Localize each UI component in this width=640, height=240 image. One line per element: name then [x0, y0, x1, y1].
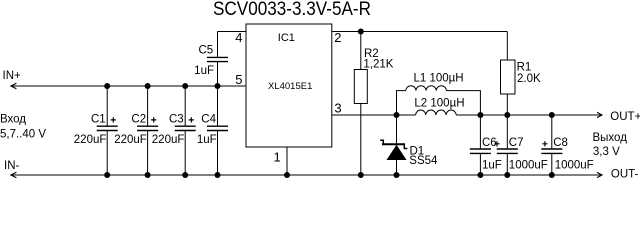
svg-text:SS54: SS54: [409, 155, 438, 167]
svg-text:Выход: Выход: [593, 132, 628, 144]
svg-text:R1: R1: [517, 62, 532, 74]
svg-text:XL4015E1: XL4015E1: [268, 81, 312, 92]
svg-text:C7: C7: [509, 137, 524, 149]
svg-text:C1: C1: [91, 113, 106, 125]
svg-text:1000uF: 1000uF: [509, 159, 548, 171]
svg-text:2: 2: [334, 30, 341, 45]
svg-text:5: 5: [235, 72, 242, 87]
svg-text:220uF: 220uF: [114, 134, 147, 146]
svg-text:L1 100µH: L1 100µH: [414, 72, 464, 84]
svg-text:L2 100µH: L2 100µH: [414, 98, 464, 110]
svg-text:IN+: IN+: [3, 70, 22, 82]
svg-text:1uF: 1uF: [194, 65, 214, 77]
svg-text:IC1: IC1: [278, 32, 295, 44]
svg-text:C5: C5: [198, 45, 213, 57]
svg-text:1: 1: [274, 149, 281, 164]
svg-text:C8: C8: [553, 137, 568, 149]
svg-text:OUT+: OUT+: [610, 111, 640, 123]
svg-text:5,7..40 V: 5,7..40 V: [0, 128, 46, 140]
svg-text:C6: C6: [482, 137, 497, 149]
svg-text:1uF: 1uF: [482, 159, 502, 171]
svg-text:C4: C4: [201, 113, 216, 125]
svg-text:OUT-: OUT-: [611, 169, 639, 179]
svg-text:Вход: Вход: [0, 113, 26, 125]
svg-text:1000uF: 1000uF: [555, 159, 594, 171]
svg-text:1uF: 1uF: [197, 134, 217, 146]
svg-text:4: 4: [235, 30, 242, 45]
svg-text:C2: C2: [131, 113, 146, 125]
svg-text:SCV0033-3.3V-5A-R: SCV0033-3.3V-5A-R: [213, 0, 371, 20]
svg-text:1,21K: 1,21K: [363, 58, 393, 70]
svg-text:2.0K: 2.0K: [517, 73, 541, 85]
svg-text:3,3 V: 3,3 V: [593, 146, 620, 158]
svg-text:220uF: 220uF: [74, 134, 107, 146]
svg-text:C3: C3: [169, 113, 184, 125]
svg-text:3: 3: [334, 101, 341, 116]
svg-text:220uF: 220uF: [152, 134, 185, 146]
svg-text:IN-: IN-: [4, 160, 20, 172]
